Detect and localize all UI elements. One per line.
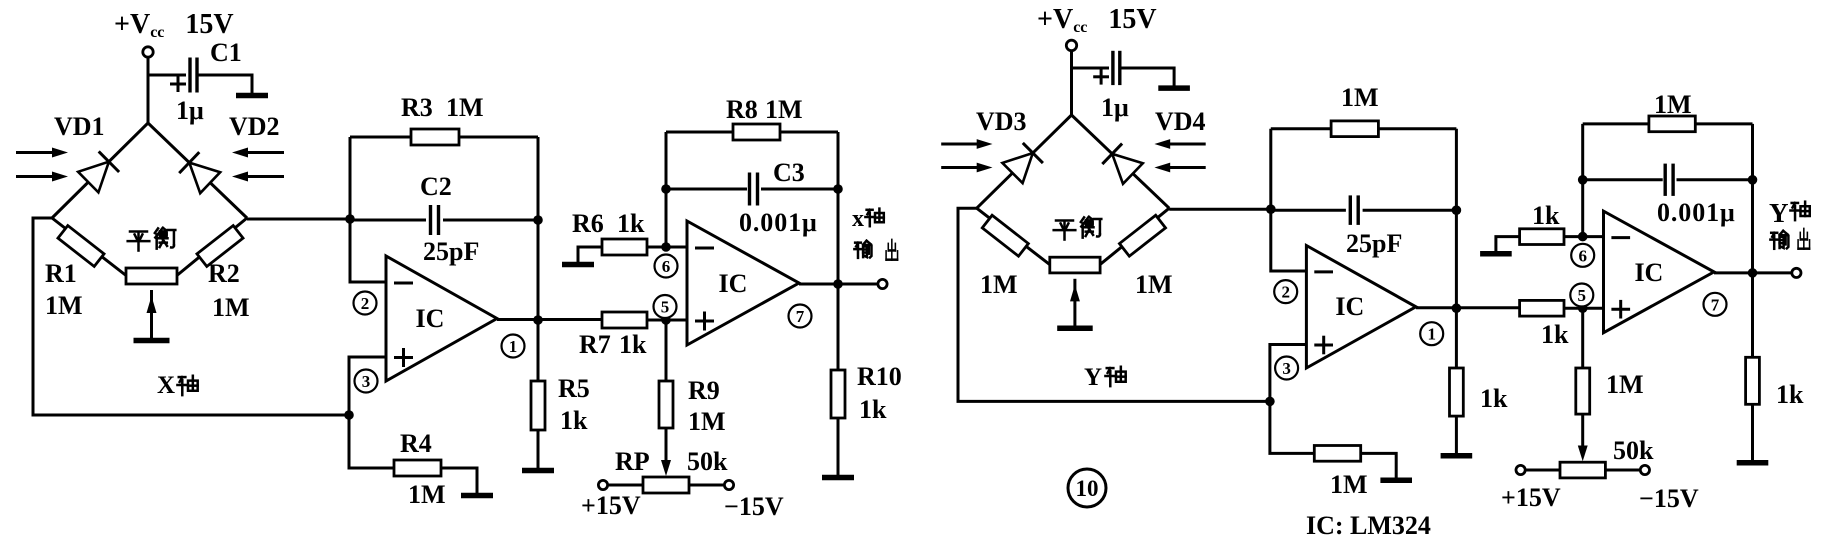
node pin 5 (Y half) (1578, 303, 1588, 313)
feedback rail right 2 (X half) (837, 132, 840, 284)
ground of C1 (Y half) (1158, 85, 1190, 91)
svg-text:R10: R10 (857, 362, 902, 391)
wire RP right (Y half) (1605, 469, 1640, 472)
ground of R5 (X half) (522, 468, 554, 474)
bridge arm lower-left (X half) (52, 218, 128, 277)
ground of R5 (Y half) (1441, 453, 1473, 459)
ground of balance pot (Y half) (1057, 326, 1093, 332)
svg-text:IC: IC (1335, 292, 1364, 321)
wire R9 (Y half) (1581, 308, 1584, 368)
ground of balance pot (X half) (134, 338, 170, 344)
node C3 right (X half) (833, 184, 843, 194)
svg-text:IC: IC (1634, 258, 1663, 287)
pin 2 label (X half) (354, 292, 377, 315)
svg-text:1M: 1M (1330, 470, 1368, 499)
svg-text:1M: 1M (1135, 270, 1173, 299)
wire R4 (X half) (349, 415, 394, 468)
resistor 1k at - input (Y half) (1520, 229, 1564, 245)
wire R10 (Y half) (1751, 273, 1754, 357)
wire R4 to ground (X half) (441, 468, 477, 493)
svg-text:+Vcc 15V: +Vcc 15V (114, 9, 234, 41)
svg-text:1M: 1M (1341, 83, 1379, 112)
wire R7 to pin5 (Y half) (1564, 307, 1604, 310)
ground of C1 (X half) (236, 93, 268, 99)
wiper arrow to RP (X half) (665, 428, 668, 466)
wire R10 low (X half) (837, 418, 840, 475)
ground of R4 (Y half) (1380, 478, 1412, 484)
svg-text:R2: R2 (208, 259, 240, 288)
svg-text:R9: R9 (688, 376, 720, 405)
label output 输出 (X) (854, 241, 871, 258)
svg-text:C2: C2 (420, 172, 452, 201)
svg-text:+15V: +15V (581, 491, 641, 520)
svg-text:VD2: VD2 (229, 112, 280, 141)
resistor R5 1k (531, 381, 545, 430)
resistor R1 1M (58, 226, 104, 267)
node pin 5 (X half) (661, 315, 671, 325)
pin 5 circle (X half) (654, 295, 677, 318)
wire R10 low (Y half) (1751, 404, 1754, 460)
op-amp IC stage 1 (Y half) (1306, 246, 1416, 369)
photodiode VD4 (1112, 154, 1143, 184)
svg-text:1k: 1k (1776, 380, 1804, 409)
capacitor 1uF (Y half) (1111, 51, 1114, 85)
resistor R6 1k (602, 239, 647, 255)
wire amp2 output (X half) (799, 283, 878, 286)
node C3 left (Y half) (1578, 175, 1588, 185)
bridge arm lower-left (Y half) (977, 208, 1052, 266)
feedback resistor 1M stage2 (Y half) (1649, 116, 1695, 132)
wire RP right (X half) (689, 484, 724, 487)
svg-text:1M: 1M (408, 480, 446, 509)
node at + input rail (Y half) (1265, 397, 1275, 407)
svg-text:25pF: 25pF (423, 237, 479, 266)
svg-text:25pF: 25pF (1346, 229, 1402, 258)
pin 6 circle (Y half) (1571, 244, 1594, 267)
wire R5 low (Y half) (1455, 416, 1458, 453)
svg-text:2: 2 (1281, 283, 1290, 302)
node pin 6 (X half) (661, 242, 671, 252)
pin 7 circle (X half) (789, 305, 812, 328)
wire bridge right node to amp (X half) (247, 218, 350, 221)
node C2/rail (X half) (533, 215, 543, 225)
node at + input rail (X half) (344, 410, 354, 420)
polarity + of cap (Y half) (1093, 75, 1109, 78)
wire R5 (Y half) (1455, 308, 1458, 368)
svg-text:1M: 1M (980, 270, 1018, 299)
wire - input (X half) (350, 219, 386, 282)
feedback rail left 2 (X half) (665, 132, 668, 247)
resistor R10 1k (831, 370, 845, 418)
bridge arm upper-left (Y half) (977, 115, 1072, 208)
resistor R2 1M (197, 226, 243, 267)
wire R4 to ground (Y half) (1361, 453, 1397, 478)
wire R6 to pin6 (Y half) (1564, 235, 1604, 238)
feedback resistor 1M (Y half) (1331, 121, 1378, 137)
resistor R4 1M (394, 460, 441, 476)
svg-text:5: 5 (661, 298, 670, 317)
svg-text:3: 3 (362, 372, 371, 391)
resistor R8 1M (733, 124, 780, 140)
wire to C1 (Y half) (1072, 67, 1110, 70)
balance potentiometer (X half) (126, 268, 177, 284)
pin 1 label (Y half) (1420, 322, 1443, 345)
ground of R10 (X half) (822, 475, 854, 481)
svg-text:C3: C3 (773, 158, 805, 187)
svg-text:VD1: VD1 (54, 112, 105, 141)
terminal +Vcc (X half) (143, 47, 153, 57)
wire C2 right (Y half) (1363, 209, 1457, 212)
capacitor C2 25pF (429, 205, 432, 235)
pin 7 circle (Y half) (1704, 293, 1727, 316)
wire R7 to pin5 (X half) (647, 319, 687, 322)
wire C3 right (X half) (761, 188, 838, 191)
wire Vcc to bridge top (Y half) (1070, 50, 1073, 115)
svg-text:3: 3 (1282, 359, 1291, 378)
wire R6 left (Y half) (1496, 237, 1520, 254)
label output 输出 (Y) (1770, 231, 1788, 249)
svg-text:1M: 1M (1606, 370, 1644, 399)
polarity + of cap (X half) (170, 83, 186, 86)
wire R4 (Y half) (1270, 401, 1314, 453)
svg-text:VD3: VD3 (976, 107, 1027, 136)
light arrows into left diode (X half) (16, 151, 56, 154)
node C2/rail (Y half) (1452, 205, 1462, 215)
bridge arm lower-right (X half) (175, 218, 247, 277)
svg-text:R3: R3 (401, 93, 433, 122)
terminal -15V (X half) (724, 480, 733, 489)
svg-text:R5: R5 (558, 374, 590, 403)
balance wiper arrow (X half) (150, 290, 153, 338)
resistor R3 1M (411, 129, 459, 145)
svg-text:1: 1 (1427, 325, 1436, 344)
terminal -15V (Y half) (1640, 465, 1649, 474)
ground of R6 (X half) (562, 262, 594, 268)
svg-text:+Vcc 15V: +Vcc 15V (1037, 4, 1157, 36)
output load resistor 1k (Y half) (1746, 357, 1760, 404)
svg-text:R8: R8 (726, 95, 758, 124)
wire bridge left node down and across (X half) (33, 218, 349, 415)
svg-text:1k: 1k (859, 395, 887, 424)
svg-text:R4: R4 (400, 429, 432, 458)
svg-text:C1: C1 (210, 38, 242, 67)
pin 5 circle (Y half) (1570, 284, 1593, 307)
svg-text:1M: 1M (212, 293, 250, 322)
bridge arm upper-left (X half) (52, 123, 148, 218)
svg-text:−15V: −15V (724, 492, 784, 521)
svg-text:R1: R1 (45, 259, 77, 288)
light arrows into left diode (Y half) (941, 143, 981, 146)
wire C3 right (Y half) (1677, 178, 1753, 181)
wire C2 right (X half) (443, 219, 538, 222)
svg-text:1k: 1k (1480, 384, 1508, 413)
wire + input (Y half) (1270, 345, 1307, 402)
pin 6 circle (X half) (655, 255, 678, 278)
wire C2 left (Y half) (1271, 209, 1346, 212)
svg-text:5: 5 (1578, 286, 1587, 305)
wire R9 (X half) (665, 320, 668, 381)
wire C3 left (X half) (666, 188, 747, 191)
svg-text:1M: 1M (446, 93, 484, 122)
svg-text:6: 6 (662, 257, 671, 276)
svg-text:50k: 50k (687, 447, 728, 476)
resistor 1M to wiper (Y half) (1576, 368, 1590, 414)
svg-text:50k: 50k (1613, 436, 1654, 465)
photodiode VD2 (189, 163, 220, 194)
resistor R9 1M (659, 381, 673, 428)
svg-text:Y: Y (1084, 364, 1102, 391)
feedback top wire (Y half) (1271, 127, 1457, 130)
photodiode VD1 (78, 162, 109, 193)
svg-text:1M: 1M (688, 407, 726, 436)
resistor 1M to ground (Y half) (1314, 446, 1360, 462)
wire R6 to pin6 (X half) (647, 246, 687, 249)
op-amp IC stage 2 (X half) (687, 221, 799, 345)
op-amp IC stage 1 (X half) (386, 256, 497, 381)
node amp1 output (X half) (533, 315, 543, 325)
feedback top wire (X half) (350, 136, 538, 139)
svg-text:IC: IC (719, 269, 748, 298)
ground of R10 (Y half) (1737, 460, 1769, 466)
svg-text:1k: 1k (617, 209, 645, 238)
wire - input (Y half) (1271, 209, 1307, 271)
wire C2 left (X half) (350, 219, 426, 222)
capacitor C1 1uF (X half) (188, 58, 191, 93)
wire amp2 output (Y half) (1714, 271, 1792, 274)
resistor R7 1k (602, 312, 647, 328)
feedback top wire 2 (X half) (666, 131, 838, 134)
node C3 right (Y half) (1748, 175, 1758, 185)
svg-text:+15V: +15V (1501, 483, 1561, 512)
svg-text:1k: 1k (1532, 201, 1560, 230)
bridge arm lower-right (Y half) (1098, 208, 1169, 266)
node bridge output (X half) (345, 214, 355, 224)
svg-text:Y: Y (1769, 198, 1789, 228)
pin 3 label (X half) (355, 370, 378, 393)
bridge resistor 1M left (Y half) (982, 215, 1028, 256)
feedback top wire 2 (Y half) (1583, 122, 1753, 125)
wire bridge left node down and across (Y half) (958, 208, 1270, 401)
wire R5 (X half) (537, 320, 540, 381)
node amp2 output (Y half) (1748, 268, 1758, 278)
wire bridge right node to amp (Y half) (1169, 208, 1271, 211)
feedback rail right (Y half) (1455, 129, 1458, 308)
svg-text:1μ: 1μ (1101, 93, 1129, 122)
svg-text:−15V: −15V (1639, 484, 1699, 513)
svg-text:1k: 1k (560, 406, 588, 435)
svg-text:R6: R6 (572, 209, 604, 238)
svg-text:10: 10 (1076, 476, 1099, 501)
svg-text:RP: RP (615, 447, 650, 476)
feedback rail left (Y half) (1269, 129, 1272, 209)
feedback rail left 2 (Y half) (1581, 124, 1584, 237)
light arrows into right diode (X half) (244, 151, 284, 154)
wire + input (X half) (349, 357, 386, 415)
svg-text:IC: LM324: IC: LM324 (1306, 511, 1431, 540)
terminal +Vcc (Y half) (1066, 40, 1076, 50)
node pin 6 (Y half) (1578, 232, 1588, 242)
output terminal (X half) (878, 279, 887, 288)
pin 3 label (Y half) (1275, 357, 1298, 380)
svg-text:7: 7 (1711, 295, 1720, 314)
op-amp IC stage 2 (Y half) (1604, 211, 1715, 333)
svg-text:1k: 1k (619, 330, 647, 359)
potentiometer RP 50k (643, 477, 689, 493)
node amp1 output (Y half) (1452, 303, 1462, 313)
wire C1 to ground (X half) (198, 75, 252, 93)
bridge resistor 1M right (Y half) (1119, 215, 1165, 256)
bridge arm upper-right (Y half) (1072, 115, 1170, 208)
svg-text:1M: 1M (1654, 90, 1692, 119)
svg-text:R7: R7 (579, 330, 611, 359)
ground of R4 (X half) (461, 493, 493, 499)
light arrows into right diode (Y half) (1166, 143, 1206, 146)
svg-text:6: 6 (1578, 246, 1587, 265)
capacitor C3 0.001uF (748, 173, 751, 206)
wire amp1 output (Y half) (1416, 306, 1520, 309)
balance potentiometer (Y half) (1050, 257, 1100, 273)
svg-text:0.001μ: 0.001μ (1657, 198, 1736, 227)
label balance 平衡 (X) (128, 231, 150, 250)
svg-text:1M: 1M (765, 95, 803, 124)
svg-text:IC: IC (416, 304, 445, 333)
svg-text:1: 1 (509, 337, 518, 356)
figure number 10 (1068, 469, 1106, 507)
svg-text:0.001μ: 0.001μ (739, 208, 818, 237)
wire RP left (X half) (608, 484, 643, 487)
svg-text:2: 2 (361, 294, 370, 313)
wire to C1 (X half) (148, 74, 186, 77)
svg-text:x: x (852, 206, 864, 232)
node C3 left (X half) (661, 184, 671, 194)
svg-text:X: X (157, 372, 175, 399)
wire RP left (Y half) (1526, 469, 1561, 472)
svg-text:1k: 1k (1541, 320, 1569, 349)
capacitor 0.001uF (Y half) (1663, 164, 1666, 196)
balance wiper arrow (Y half) (1073, 279, 1076, 326)
wiper arrow to RP (Y half) (1581, 414, 1584, 451)
terminal +15V (Y half) (1516, 465, 1525, 474)
wire R10 (X half) (837, 284, 840, 370)
svg-text:VD4: VD4 (1155, 107, 1206, 136)
wire C1 to ground (Y half) (1121, 68, 1174, 86)
resistor 1k at amp1 output (Y half) (1450, 368, 1464, 416)
output terminal (Y half) (1792, 268, 1801, 277)
wire C3 left (Y half) (1583, 178, 1663, 181)
capacitor 25pF (Y half) (1349, 195, 1352, 225)
wire Vcc to bridge top (X half) (147, 57, 150, 123)
terminal +15V (X half) (598, 480, 607, 489)
wire R5 low (X half) (537, 430, 540, 468)
feedback rail left (X half) (349, 137, 352, 219)
svg-text:1μ: 1μ (176, 96, 204, 125)
node bridge output (Y half) (1266, 204, 1276, 214)
wire R6 left (X half) (578, 247, 602, 264)
wire amp1 output (X half) (497, 318, 602, 321)
svg-text:7: 7 (796, 307, 805, 326)
label balance 平衡 (Y) (1054, 220, 1076, 239)
node amp2 output (X half) (833, 279, 843, 289)
pin 1 label (X half) (502, 335, 525, 358)
feedback rail right 2 (Y half) (1751, 124, 1754, 273)
resistor 1k in series (Y half) (1520, 300, 1564, 316)
ground of R6 (Y half) (1480, 251, 1512, 257)
potentiometer 50k (Y half) (1560, 462, 1605, 478)
pin 2 label (Y half) (1274, 280, 1297, 303)
photodiode VD3 (1002, 153, 1032, 183)
bridge arm upper-right (X half) (148, 123, 247, 218)
feedback rail right (X half) (537, 137, 540, 320)
svg-text:1M: 1M (45, 291, 83, 320)
